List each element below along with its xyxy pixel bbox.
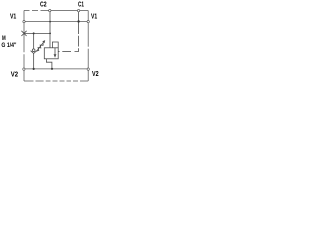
wire check-valve upper — [33, 33, 35, 49]
plug X at port M — [21, 31, 26, 36]
valve spring (adjustable) — [37, 43, 43, 51]
manifold boundary top edge (dash-dot) — [24, 10, 88, 12]
wire V2 through-line — [24, 68, 88, 70]
pilot line stub at valve — [58, 50, 59, 52]
wire valve outlet to V2 — [46, 59, 52, 69]
pilot line dashed — [62, 22, 78, 52]
svg-text:C2: C2 — [40, 2, 47, 9]
counterbalance valve body — [44, 48, 58, 59]
wire M gauge line — [24, 32, 50, 34]
check valve ball — [32, 49, 35, 52]
wire C1 branch — [78, 11, 80, 22]
manifold boundary bottom edge — [24, 80, 88, 82]
valve pilot piston cap — [52, 42, 58, 48]
wire check-valve lower — [33, 54, 35, 69]
svg-text:V1: V1 — [91, 13, 97, 20]
manifold boundary left edge — [23, 11, 25, 82]
svg-text:V2: V2 — [92, 71, 99, 78]
junction dots — [33, 20, 80, 70]
valve flow arrow — [54, 48, 56, 55]
svg-text:V2: V2 — [11, 71, 18, 78]
svg-text:G 1/4": G 1/4" — [1, 42, 16, 49]
wire C2 branch down to valve inlet — [49, 11, 51, 48]
port circles — [23, 9, 90, 70]
svg-text:C1: C1 — [78, 2, 84, 9]
check valve seat — [31, 51, 37, 54]
svg-text:V1: V1 — [10, 13, 16, 20]
adjustment arrow — [36, 42, 43, 51]
manifold boundary right edge — [87, 11, 89, 82]
wire V1 through-line — [24, 21, 88, 23]
